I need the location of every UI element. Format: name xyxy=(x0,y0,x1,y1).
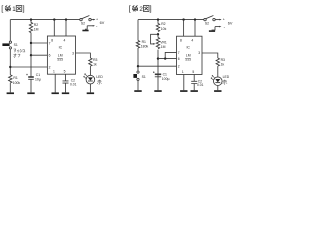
battery plus arrow P2 xyxy=(215,19,220,21)
node dot pin2 junction P1 xyxy=(9,66,11,68)
svg-text:[: [ xyxy=(129,4,131,13)
svg-text:S2: S2 xyxy=(81,21,85,25)
P1 left vertical wire from rail to S1 xyxy=(9,20,11,41)
svg-text:4: 4 xyxy=(64,38,66,42)
svg-text:10k: 10k xyxy=(161,27,167,31)
R2 labels xyxy=(34,23,39,32)
IC pin4 stub P1 xyxy=(65,18,67,20)
wire minus to ground P2 xyxy=(212,27,215,31)
svg-text:S2: S2 xyxy=(205,21,209,25)
svg-text:8: 8 xyxy=(51,38,53,42)
svg-text:1: 1 xyxy=(53,69,55,73)
svg-text:[: [ xyxy=(1,4,3,13)
resistor R1 180k P2 xyxy=(136,40,139,71)
title panel 2 [第2図] xyxy=(129,4,152,13)
svg-text:10µ: 10µ xyxy=(35,77,41,81)
svg-text:2: 2 xyxy=(49,65,51,69)
P1 top rail Vcc xyxy=(10,19,79,21)
C1 plus sign xyxy=(26,74,28,76)
C1 labels P2 xyxy=(162,72,170,81)
node dot VR1 top junction P2 xyxy=(157,33,159,35)
capacitor C2 0.01 P2 xyxy=(191,81,197,83)
svg-text:555: 555 xyxy=(57,58,63,62)
R1 labels xyxy=(13,76,21,85)
svg-text:S1: S1 xyxy=(142,75,146,79)
capacitor C1 10µ (electrolytic) xyxy=(28,76,34,78)
svg-text:R3: R3 xyxy=(221,58,225,62)
ground (pin1) xyxy=(52,92,59,94)
R3 labels P1 xyxy=(93,58,97,66)
kanji 第 (approx) xyxy=(132,6,137,8)
wire pin2 P2 xyxy=(138,65,177,67)
LED red P2 xyxy=(211,75,222,85)
svg-text:0.01: 0.01 xyxy=(197,83,204,87)
S1 caption プッシュ (approx strokes) xyxy=(14,49,26,53)
resistor R1 100k xyxy=(9,75,12,93)
battery plus arrow P1 xyxy=(91,19,94,21)
svg-text:R3: R3 xyxy=(93,58,97,62)
resistor R3 1k P2 xyxy=(216,58,219,77)
switch S1 P2 xyxy=(133,71,139,81)
wire pin7 P1 xyxy=(31,42,47,44)
svg-text:7: 7 xyxy=(178,51,180,55)
kanji 赤 P2 (approx) xyxy=(223,80,227,85)
svg-text:6: 6 xyxy=(178,57,180,61)
IC texts P1 xyxy=(49,38,75,73)
svg-text:R2: R2 xyxy=(34,23,38,27)
kanji 赤 P1 (approx) xyxy=(97,80,101,85)
kanji 図 (approx) xyxy=(16,6,22,12)
ground (battery) P2 xyxy=(209,30,215,32)
svg-text:LED: LED xyxy=(223,75,230,79)
svg-text:1k: 1k xyxy=(93,63,97,67)
svg-text:1M: 1M xyxy=(161,45,166,49)
IC pin5 stub P2 xyxy=(193,75,195,82)
node dot pin6 junction P1 xyxy=(30,54,32,56)
wire pin3 output P2 xyxy=(202,53,218,58)
svg-text:3: 3 xyxy=(198,51,200,55)
IC pin8 stub P2 xyxy=(182,18,184,20)
svg-text:5: 5 xyxy=(192,70,194,74)
switch S2 P2 xyxy=(204,16,215,21)
C1 plus sign P2 xyxy=(153,71,155,73)
ground (LED) P2 xyxy=(214,90,221,92)
wire pin2 P1 xyxy=(10,66,47,68)
svg-text:1k: 1k xyxy=(221,63,225,67)
capacitor C1 100µ P2 (electrolytic) xyxy=(155,73,161,75)
svg-text:2: 2 xyxy=(178,65,180,69)
IC pin1 ground stub P1 xyxy=(54,74,56,92)
battery minus arrow P2 xyxy=(215,26,220,28)
ground (LED) xyxy=(87,92,94,94)
svg-text:1M: 1M xyxy=(34,27,39,31)
svg-text:7: 7 xyxy=(49,41,51,45)
svg-text:R1: R1 xyxy=(13,76,17,80)
op IC box LM555 P2 xyxy=(177,36,203,74)
wire pin6 P1 xyxy=(31,54,47,56)
IC pin8 stub P1 xyxy=(53,18,55,20)
op IC box LM555 P1 xyxy=(47,36,75,74)
svg-text:6V: 6V xyxy=(228,22,233,26)
R3 labels P2 xyxy=(221,58,225,66)
ground (C1) xyxy=(27,92,34,94)
title panel 1 [第1図] xyxy=(1,4,24,13)
svg-text:180k: 180k xyxy=(141,45,149,49)
switch S1 (push-off) xyxy=(2,41,11,49)
ground (C1) P2 xyxy=(154,90,161,92)
P1 wire S1 to pin2 node xyxy=(9,49,11,75)
svg-text:R2: R2 xyxy=(161,22,165,26)
svg-text:6V: 6V xyxy=(100,21,105,25)
svg-text:+: + xyxy=(223,17,225,21)
svg-text:+: + xyxy=(96,17,98,21)
IC texts P2 xyxy=(178,38,201,74)
resistor R3 1k P1 xyxy=(89,58,92,75)
variable resistor VR1 1M P2 xyxy=(156,37,159,77)
svg-text:1: 1 xyxy=(182,70,184,74)
wire C1 to ground P2 xyxy=(157,77,159,90)
svg-text:100k: 100k xyxy=(13,81,21,85)
ground (battery) P1 xyxy=(82,30,88,32)
wire pin6 P2 xyxy=(158,58,177,60)
wire minus to ground P1 xyxy=(85,26,87,30)
VR1 labels P2 xyxy=(160,41,167,50)
wire S1 to ground P2 xyxy=(137,81,139,91)
LED red P1 xyxy=(84,74,95,84)
P2 left vertical wire from rail to R1 xyxy=(137,20,139,41)
VR1 wiper arrowhead P2 xyxy=(153,43,155,45)
svg-text:C1: C1 xyxy=(163,72,167,76)
kanji 第 (approx) xyxy=(5,6,10,8)
wire pin3 output P1 xyxy=(76,53,91,58)
VR1 wiper loop wire P2 xyxy=(151,34,158,44)
svg-text:R1: R1 xyxy=(142,40,146,44)
C2 labels P2 xyxy=(197,79,204,87)
svg-text:C1: C1 xyxy=(36,73,40,77)
ground (C2) P2 xyxy=(191,90,198,92)
ground (pin1) P2 xyxy=(180,90,187,92)
svg-text:-: - xyxy=(96,24,98,29)
resistor R2 10k P2 (top dot on rail) xyxy=(157,18,159,20)
svg-text:-: - xyxy=(224,25,226,30)
wire pin7 L P2 xyxy=(165,52,176,58)
C2 labels P1 xyxy=(70,78,77,86)
svg-text:555: 555 xyxy=(185,58,191,62)
P2 top rail Vcc xyxy=(138,19,204,21)
svg-text:1: 1 xyxy=(12,6,16,13)
ground (R1) xyxy=(7,92,14,94)
svg-text:2: 2 xyxy=(139,6,143,13)
svg-text:S1: S1 xyxy=(14,43,18,47)
battery minus arrow P1 xyxy=(87,25,93,27)
S1 caption オフ (approx strokes) xyxy=(14,54,21,58)
svg-text:3: 3 xyxy=(72,51,74,55)
svg-text:]: ] xyxy=(23,4,25,13)
svg-text:VR1: VR1 xyxy=(160,41,167,45)
resistor R2 1M (top dot on rail) xyxy=(30,18,32,20)
IC pin5 stub P1 xyxy=(65,74,67,81)
IC pin4 stub P2 xyxy=(194,18,196,20)
svg-text:6: 6 xyxy=(49,54,51,58)
ground (S1) P2 xyxy=(134,90,141,92)
node dot pin7 junction P1 xyxy=(30,42,32,44)
svg-text:IC: IC xyxy=(186,46,190,50)
svg-text:5: 5 xyxy=(64,69,66,73)
ground (C2) xyxy=(62,92,69,94)
svg-text:8: 8 xyxy=(180,38,182,42)
R2 labels P2 xyxy=(161,22,167,31)
node dot pin6 junction P2 xyxy=(157,57,159,59)
R1 labels P2 xyxy=(141,40,149,49)
node dot pin2 junction P2 xyxy=(137,65,139,67)
svg-text:100µ: 100µ xyxy=(162,77,170,81)
svg-text:LED: LED xyxy=(96,75,103,79)
svg-text:]: ] xyxy=(150,4,152,13)
C1 labels xyxy=(35,73,41,82)
svg-text:4: 4 xyxy=(191,38,193,42)
svg-text:IC: IC xyxy=(59,45,63,49)
switch S2 P1 xyxy=(80,16,91,21)
svg-text:0.01: 0.01 xyxy=(70,82,77,86)
node dot pin7 L junction P2 xyxy=(164,57,166,59)
IC pin1 ground stub P2 xyxy=(183,75,185,91)
capacitor C2 0.01 P1 xyxy=(63,81,69,83)
kanji 図 (approx) xyxy=(143,6,149,12)
